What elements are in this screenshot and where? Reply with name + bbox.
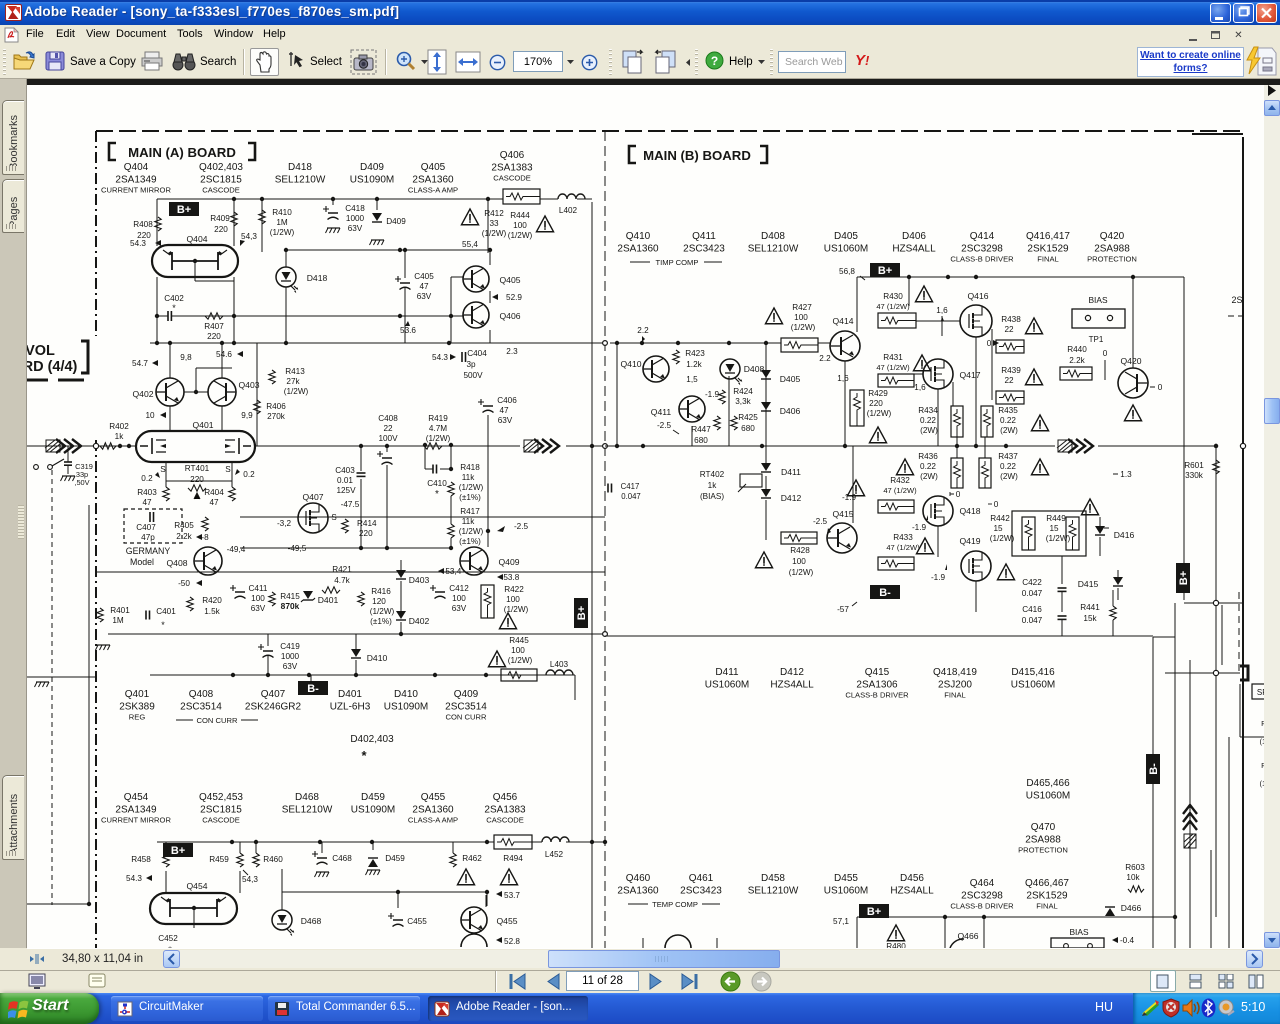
wire dashed vertical	[51, 470, 53, 905]
svg-text:D412: D412	[781, 493, 802, 503]
svg-text:(1/2W): (1/2W)	[508, 656, 533, 665]
label group Q416,417	[1026, 231, 1070, 264]
resistor R440	[1060, 345, 1108, 380]
label group D408	[748, 231, 799, 255]
diode D416	[1095, 526, 1134, 540]
wire bus to Q401	[116, 444, 136, 448]
svg-text:(1/2W): (1/2W)	[990, 534, 1015, 543]
resistor R405	[174, 517, 208, 541]
svg-text:Q454: Q454	[186, 881, 207, 891]
svg-text:CON CURR: CON CURR	[197, 716, 238, 725]
svg-text:Q470: Q470	[1031, 822, 1056, 833]
svg-text:2SC1815: 2SC1815	[200, 805, 242, 816]
svg-text:C412: C412	[449, 584, 469, 593]
svg-text:Q415: Q415	[832, 509, 853, 519]
task buttons	[111, 996, 263, 1021]
transistor Q417 mosfet	[914, 359, 981, 406]
warning R427	[765, 308, 782, 324]
svg-text:47 (1/2W): 47 (1/2W)	[876, 363, 910, 372]
power badge B- right vertical	[1146, 754, 1160, 784]
label -3.2	[277, 519, 292, 528]
resistor R404	[204, 487, 235, 507]
svg-text:R432: R432	[890, 476, 910, 485]
svg-text:R420: R420	[202, 596, 222, 605]
led D408	[720, 359, 764, 385]
svg-text:FINAL: FINAL	[944, 691, 966, 700]
svg-text:Q464: Q464	[970, 878, 995, 889]
svg-text:FINAL: FINAL	[1037, 255, 1059, 264]
wire B lower rail	[605, 517, 1153, 636]
svg-text:1000: 1000	[281, 652, 300, 661]
diode D411	[761, 463, 801, 477]
svg-text:CURRENT MIRROR: CURRENT MIRROR	[101, 816, 171, 825]
resistor R601	[1184, 444, 1219, 480]
label group Q464	[950, 878, 1014, 911]
transistor Q414	[830, 316, 860, 361]
svg-text:R425: R425	[738, 413, 758, 422]
svg-text:Q455: Q455	[496, 916, 517, 926]
label R6 cut a	[1259, 719, 1272, 746]
svg-text:D412: D412	[780, 667, 804, 678]
svg-text:Q416,417: Q416,417	[1026, 231, 1070, 242]
svg-text:R6: R6	[1261, 719, 1264, 728]
svg-text:R434: R434	[918, 406, 938, 415]
svg-text:D409: D409	[386, 217, 406, 226]
label 54.6	[216, 350, 243, 359]
svg-text:(1/2W): (1/2W)	[459, 527, 484, 536]
svg-text:Model: Model	[130, 557, 154, 567]
svg-text:D468: D468	[301, 916, 322, 926]
warning R432	[847, 480, 864, 496]
svg-text:*: *	[168, 945, 172, 948]
svg-text:(1/2: (1/2	[1259, 779, 1264, 788]
svg-text:22: 22	[1004, 376, 1014, 385]
svg-text:B+: B+	[867, 906, 881, 918]
svg-text:Q420: Q420	[1120, 356, 1141, 366]
svg-text:R438: R438	[1001, 315, 1021, 324]
svg-text:MAIN (A) BOARD: MAIN (A) BOARD	[128, 145, 236, 160]
svg-text:220: 220	[214, 225, 228, 234]
led D418	[276, 267, 327, 293]
svg-text:2SC3298: 2SC3298	[961, 244, 1003, 255]
capacitor C416	[1022, 605, 1067, 625]
label TIMP COMP	[630, 258, 722, 267]
svg-text:C452: C452	[158, 934, 178, 943]
svg-text:Q402: Q402	[132, 389, 153, 399]
svg-text:UZL-6H3: UZL-6H3	[330, 702, 371, 713]
wire right horizontals	[1153, 603, 1243, 673]
transistor Q420	[1118, 356, 1148, 398]
label group D406	[892, 231, 936, 255]
svg-text:2.2: 2.2	[637, 326, 649, 335]
label group D412	[770, 667, 814, 691]
svg-text:Q452,453: Q452,453	[199, 792, 243, 803]
inductor L452	[542, 837, 569, 859]
svg-text:100: 100	[792, 557, 806, 566]
svg-text:0: 0	[987, 339, 992, 348]
resistor R422	[481, 585, 529, 618]
warning R449	[997, 499, 1098, 580]
svg-text:54.6: 54.6	[216, 350, 232, 359]
label 1.6 b	[914, 383, 926, 392]
svg-text:2SC3423: 2SC3423	[683, 244, 725, 255]
label -50	[178, 579, 202, 588]
wire bus B right	[1098, 443, 1246, 448]
wire bottom-left branch	[1090, 636, 1153, 917]
svg-text:D459: D459	[361, 792, 385, 803]
Windows taskbar	[0, 993, 1280, 1024]
svg-text:9,8: 9,8	[180, 353, 192, 362]
svg-text:US1060M: US1060M	[1011, 680, 1055, 691]
label group D459	[351, 792, 395, 816]
svg-text:Q411: Q411	[651, 407, 672, 417]
wire A top rail	[157, 198, 592, 200]
svg-text:R419: R419	[428, 414, 448, 423]
svg-text:0.22: 0.22	[920, 416, 936, 425]
transistor Q418 mosfet	[923, 496, 981, 526]
svg-text:2SC3298: 2SC3298	[961, 891, 1003, 902]
resistor R433	[878, 533, 934, 570]
svg-text:53.6: 53.6	[400, 326, 416, 335]
label group D411	[705, 667, 749, 691]
svg-text:R460: R460	[263, 855, 283, 864]
svg-text:SEL1210W: SEL1210W	[748, 244, 799, 255]
svg-text:Q414: Q414	[832, 316, 853, 326]
connector BIAS bottom	[1051, 927, 1104, 948]
svg-text:63V: 63V	[251, 604, 266, 613]
svg-text:R424: R424	[733, 387, 753, 396]
wire B mid bus	[605, 444, 1055, 448]
resistor R447	[691, 416, 720, 445]
capacitor C411	[230, 584, 268, 613]
svg-text:100: 100	[452, 594, 466, 603]
svg-text:US1090M: US1090M	[350, 175, 394, 186]
transistor Q406	[463, 302, 521, 328]
label group D468	[282, 792, 333, 816]
svg-text:(1/2W): (1/2W)	[789, 568, 814, 577]
label 1.5	[686, 375, 698, 384]
vertical scrollbar	[1264, 85, 1280, 948]
svg-text:CASCODE: CASCODE	[202, 816, 240, 825]
svg-text:D415,416: D415,416	[1011, 667, 1055, 678]
label -1.9 q415	[842, 493, 857, 502]
svg-text:2SA1349: 2SA1349	[115, 175, 157, 186]
diode D459	[366, 842, 406, 875]
node input chevron arrow	[45, 439, 81, 453]
svg-text:1,6: 1,6	[837, 374, 849, 383]
svg-text:1,6: 1,6	[914, 383, 926, 392]
label 9.9	[241, 411, 253, 420]
label 56.8	[839, 267, 865, 280]
resistor R603b	[1125, 863, 1145, 892]
svg-text:Q454: Q454	[124, 792, 149, 803]
label -53.4	[438, 567, 462, 576]
resistor group box	[1012, 511, 1086, 556]
svg-text:R444: R444	[510, 211, 530, 220]
label group Q460	[617, 873, 659, 897]
svg-text:R412: R412	[484, 209, 504, 218]
svg-text:47 (1/2W): 47 (1/2W)	[886, 543, 920, 552]
svg-text:Q416: Q416	[967, 291, 988, 301]
svg-text:2SA1360: 2SA1360	[412, 805, 454, 816]
svg-text:2SA1383: 2SA1383	[491, 163, 533, 174]
svg-text:100: 100	[251, 594, 265, 603]
svg-text:D466: D466	[1121, 903, 1142, 913]
wire source row	[166, 462, 232, 487]
resistor R419	[424, 414, 451, 449]
resistor R415	[269, 592, 300, 611]
resistor R438	[996, 315, 1043, 353]
label group Q406	[491, 150, 533, 183]
warning R422	[499, 613, 516, 629]
wire junctions row	[155, 314, 236, 343]
svg-text:(1/2W): (1/2W)	[370, 607, 395, 616]
svg-text:(1/2W): (1/2W)	[284, 387, 309, 396]
svg-text:47: 47	[419, 282, 429, 291]
svg-text:22: 22	[383, 424, 393, 433]
svg-text:C401: C401	[156, 607, 176, 616]
diode D406	[761, 402, 800, 416]
svg-text:680: 680	[694, 436, 708, 445]
transistor Q454	[150, 881, 237, 924]
resistor R434	[918, 406, 963, 437]
svg-text:*: *	[361, 748, 367, 763]
svg-text:15k: 15k	[1083, 614, 1097, 623]
svg-text:Q407: Q407	[302, 492, 323, 502]
svg-text:*: *	[172, 303, 176, 313]
label -0.4	[1112, 936, 1135, 945]
svg-text:US1060M: US1060M	[1026, 791, 1070, 802]
svg-text:(±1%): (±1%)	[370, 617, 392, 626]
svg-text:63V: 63V	[417, 292, 432, 301]
resistor R435	[981, 406, 1049, 437]
warning Q420	[1124, 405, 1141, 421]
svg-text:C455: C455	[407, 917, 427, 926]
resistor R458	[126, 842, 169, 883]
power badge B+ right vertical	[1176, 563, 1190, 593]
label group D418	[275, 162, 326, 186]
svg-text:US1090M: US1090M	[351, 805, 395, 816]
label 2S cut	[1228, 295, 1243, 316]
svg-text:Q402,403: Q402,403	[199, 162, 243, 173]
svg-text:R6: R6	[1261, 761, 1264, 770]
svg-text:1,6: 1,6	[936, 306, 948, 315]
svg-text:2SC3423: 2SC3423	[680, 886, 722, 897]
svg-text:C405: C405	[414, 272, 434, 281]
resistor R410	[259, 208, 295, 237]
svg-text:R410: R410	[272, 208, 292, 217]
transistor Q402	[132, 378, 184, 406]
label 0 q420	[1150, 383, 1163, 392]
svg-text:C406: C406	[497, 396, 517, 405]
resistor R412	[461, 209, 506, 238]
capacitor C408	[377, 414, 398, 465]
diode D403	[396, 570, 429, 585]
svg-text:FINAL: FINAL	[1036, 902, 1058, 911]
node vertical chevron arrow	[1183, 805, 1197, 848]
resistor R413	[269, 367, 309, 396]
resistor R428 label	[789, 546, 814, 577]
svg-text:C416: C416	[1022, 605, 1042, 614]
capacitor C422	[1022, 578, 1067, 598]
label group Q411	[683, 231, 725, 255]
resistor R401	[97, 606, 130, 625]
svg-text:R422: R422	[504, 585, 524, 594]
svg-text:R445: R445	[509, 636, 529, 645]
label group D465,466	[1026, 778, 1070, 802]
svg-text:GERMANY: GERMANY	[126, 546, 171, 556]
svg-text:120: 120	[372, 597, 386, 606]
svg-text:27k: 27k	[286, 377, 300, 386]
svg-text:100: 100	[511, 646, 525, 655]
svg-text:D409: D409	[360, 162, 384, 173]
label 54.3 left	[130, 239, 161, 248]
resistor R421	[322, 565, 352, 593]
warning R428	[755, 552, 772, 568]
transistor Q460 clipped	[643, 935, 717, 948]
capacitor C407 dashed box	[124, 509, 182, 543]
svg-text:15: 15	[1049, 524, 1059, 533]
capacitor C402	[157, 294, 451, 321]
svg-text:Q461: Q461	[689, 873, 714, 884]
wire Q415 emitter	[852, 553, 854, 612]
svg-text:2S: 2S	[1231, 295, 1242, 305]
svg-text:TIMP COMP: TIMP COMP	[656, 258, 699, 267]
svg-text:Q410: Q410	[626, 231, 651, 242]
node bus chevron A	[523, 439, 559, 453]
svg-text:-57: -57	[837, 605, 849, 614]
transistor Q409	[460, 547, 520, 575]
resistor R402	[100, 422, 129, 449]
svg-text:0.047: 0.047	[1022, 616, 1043, 625]
svg-text:0.22: 0.22	[920, 462, 936, 471]
svg-text:D418: D418	[288, 162, 312, 173]
svg-text:B+: B+	[576, 606, 588, 620]
svg-text:1.5k: 1.5k	[204, 607, 220, 616]
svg-text:Q456: Q456	[493, 792, 518, 803]
svg-text:Q405: Q405	[499, 275, 520, 285]
transistor Q411	[651, 396, 705, 422]
svg-text:R431: R431	[883, 353, 903, 362]
svg-text:1k: 1k	[115, 432, 125, 441]
wire input bus left	[27, 445, 136, 447]
svg-text:*: *	[435, 489, 439, 500]
svg-text:52.8: 52.8	[504, 937, 520, 946]
svg-text:(±1%): (±1%)	[459, 493, 481, 502]
ground left mid	[96, 645, 111, 650]
svg-text:Q407: Q407	[261, 689, 286, 700]
wire Q407 links	[240, 489, 446, 517]
switch S301	[34, 459, 64, 469]
transistor Q419 mosfet	[959, 536, 991, 581]
wire left stub	[27, 676, 96, 678]
label 10	[145, 411, 166, 420]
label group Q456	[484, 792, 526, 825]
label group Q420	[1087, 231, 1137, 264]
svg-text:C402: C402	[164, 294, 184, 303]
svg-text:-1.9: -1.9	[705, 390, 720, 399]
resistor R428 box	[781, 532, 817, 544]
svg-text:0: 0	[1158, 383, 1163, 392]
svg-text:2SA1360: 2SA1360	[617, 886, 659, 897]
label group Q452,453	[199, 792, 243, 825]
svg-text:B-: B-	[1148, 763, 1160, 775]
svg-text:54,3: 54,3	[241, 232, 257, 241]
svg-text:2SK389: 2SK389	[119, 702, 155, 713]
label 52.9	[492, 293, 522, 302]
svg-text:33: 33	[489, 219, 499, 228]
svg-text:R494: R494	[503, 854, 523, 863]
svg-text:1M: 1M	[112, 616, 124, 625]
svg-text:(2W): (2W)	[1000, 426, 1018, 435]
svg-text:2SA988: 2SA988	[1094, 244, 1130, 255]
label D402,403	[350, 734, 394, 763]
svg-text:R447: R447	[691, 425, 711, 434]
resistor R406	[254, 400, 286, 421]
label 52.8	[496, 937, 520, 946]
svg-text:*: *	[161, 620, 165, 630]
svg-text:0.047: 0.047	[621, 492, 641, 501]
wire Q404 bottoms	[157, 261, 234, 316]
label 1.6 c	[837, 374, 849, 383]
svg-text:C422: C422	[1022, 578, 1042, 587]
svg-text:S: S	[160, 465, 166, 474]
svg-text:54.3: 54.3	[126, 874, 142, 883]
resistor R420	[187, 596, 222, 616]
capacitor C401	[146, 607, 176, 630]
label -2.5 q411	[657, 421, 679, 434]
label -49.5	[288, 544, 307, 553]
svg-text:R417: R417	[460, 507, 480, 516]
connector SP box	[1252, 684, 1278, 699]
svg-text:220: 220	[207, 332, 221, 341]
toolbar	[0, 45, 1280, 79]
wire Q414 emitter	[844, 318, 846, 446]
capacitor C419	[258, 642, 300, 671]
power badge B+	[169, 202, 199, 216]
status bar	[0, 970, 1280, 993]
transistor Q405	[463, 266, 521, 292]
inductor L403	[546, 660, 573, 675]
resistor R429	[850, 389, 892, 443]
svg-text:R408: R408	[133, 220, 153, 229]
svg-text:54,3: 54,3	[242, 875, 258, 884]
label group Q402,403	[199, 162, 243, 195]
label group Q415	[845, 667, 909, 700]
svg-text:D406: D406	[902, 231, 926, 242]
led D468	[272, 869, 321, 936]
svg-text:(1/2W): (1/2W)	[1046, 534, 1071, 543]
svg-text:R405: R405	[174, 521, 194, 530]
svg-text:R423: R423	[685, 349, 705, 358]
svg-text:R603: R603	[1125, 863, 1145, 872]
label group Q461	[680, 873, 722, 897]
svg-text:PROTECTION: PROTECTION	[1087, 255, 1137, 264]
label group D415,416	[1011, 667, 1055, 691]
svg-text:47: 47	[209, 498, 219, 507]
label group Q418,419	[933, 667, 977, 700]
label group Q404	[101, 162, 171, 195]
svg-text:Q408: Q408	[189, 689, 214, 700]
svg-text:-8: -8	[201, 533, 209, 542]
resistor R432	[878, 476, 917, 513]
svg-text:2SC1815: 2SC1815	[200, 175, 242, 186]
wire A bottom row2	[282, 890, 489, 909]
svg-text:CLASS-A AMP: CLASS-A AMP	[408, 816, 458, 825]
wire main bus A	[255, 444, 619, 449]
wire B bottom rail	[857, 737, 1229, 948]
capacitor C412	[430, 584, 469, 613]
